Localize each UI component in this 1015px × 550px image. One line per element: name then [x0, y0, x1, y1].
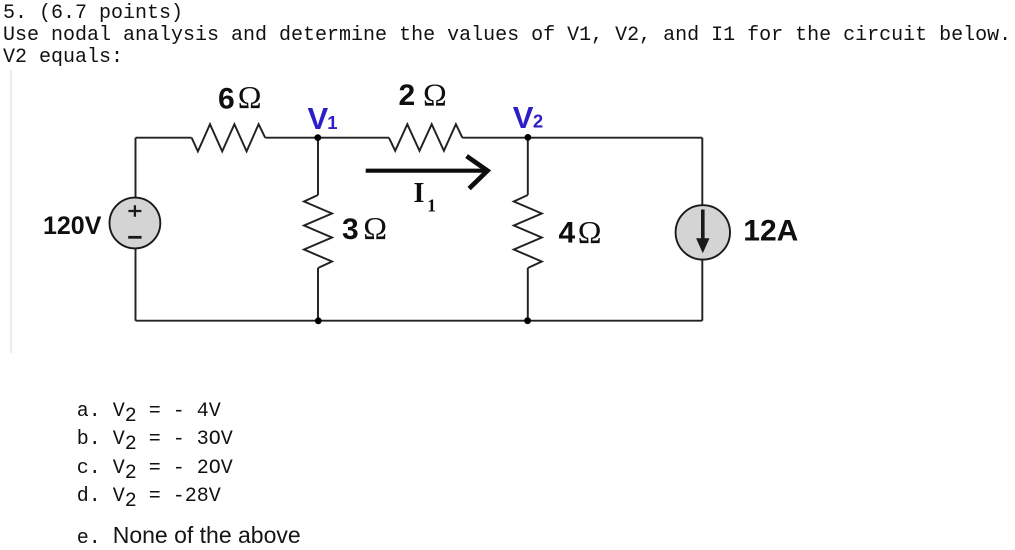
- answer option c: [77, 457, 233, 480]
- svg-text:3: 3: [342, 213, 359, 246]
- svg-text:V: V: [308, 101, 329, 136]
- svg-text:Ω: Ω: [423, 76, 447, 112]
- plus sign inside voltage source: [128, 205, 141, 216]
- svg-text:V: V: [513, 100, 534, 135]
- arrow inside current source: [701, 210, 705, 241]
- svg-text:120V: 120V: [43, 212, 102, 240]
- resistor R 2ohm zigzag: [389, 124, 463, 151]
- voltage source V 120V circle: [109, 198, 160, 249]
- resistor R 6ohm zigzag: [192, 124, 266, 151]
- svg-text:1: 1: [327, 112, 337, 133]
- svg-text:2: 2: [399, 79, 416, 112]
- svg-text:6: 6: [218, 83, 235, 116]
- svg-text:1: 1: [427, 195, 436, 215]
- svg-text:Ω: Ω: [363, 210, 387, 246]
- answer option b: [77, 428, 233, 451]
- wire bottom rail: [136, 248, 703, 320]
- wire top: 2ohm to node V2 to top-right corner: [462, 138, 702, 206]
- node dot V1 top: [314, 134, 321, 141]
- svg-text:Ω: Ω: [578, 214, 602, 250]
- current source I 12A circle: [676, 205, 730, 259]
- svg-text:Ω: Ω: [238, 79, 262, 115]
- svg-text:I: I: [414, 178, 425, 209]
- current arrow I1: [366, 169, 487, 173]
- left image border line: [10, 70, 12, 353]
- svg-text:4: 4: [559, 217, 576, 250]
- svg-text:12A: 12A: [743, 214, 798, 247]
- wire top-left: left corner to 6ohm resistor: [136, 138, 192, 198]
- problem statement text: [3, 3, 1011, 69]
- node dot bottom under V2: [524, 317, 531, 324]
- svg-text:2: 2: [533, 110, 543, 131]
- wire node V1 vertical + resistor 3ohm: [304, 138, 332, 321]
- minus sign inside voltage source: [128, 236, 141, 239]
- wire node V2 vertical + resistor 4ohm: [514, 138, 542, 321]
- answer option a: [77, 400, 221, 423]
- answer option d: [77, 485, 221, 508]
- node dot bottom under V1: [315, 317, 322, 324]
- node dot V2 top: [525, 134, 532, 141]
- wire top: 6ohm to 2ohm through node V1: [265, 137, 389, 139]
- answer option e: [77, 522, 301, 550]
